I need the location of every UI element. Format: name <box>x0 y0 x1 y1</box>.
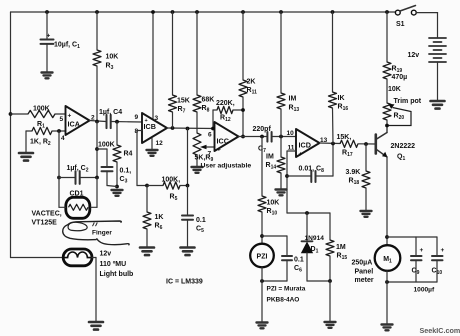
wire R12 ends <box>213 109 243 111</box>
node top rail / R16 <box>331 10 335 14</box>
wire C4 to ICB pin 9 <box>111 121 142 124</box>
svg-text:100K: 100K <box>33 106 50 113</box>
wire R14 top <box>280 137 282 158</box>
node top rail / R8 <box>195 10 199 14</box>
wire R14 bottom <box>280 173 282 189</box>
resistor R11 label <box>247 79 258 96</box>
wire R18 top <box>365 144 367 171</box>
transistor Q1 2N2222 <box>376 133 388 158</box>
photocell CD1 name label <box>32 211 62 227</box>
op-amp ICB <box>135 113 168 147</box>
svg-text:0.1: 0.1 <box>196 217 206 224</box>
svg-text:IK: IK <box>338 95 345 102</box>
diode D1 1N914 <box>302 241 313 253</box>
resistor R8 68K <box>193 95 201 112</box>
wire R16 bottom <box>332 108 335 144</box>
svg-text:PKB8-4AO: PKB8-4AO <box>267 297 300 304</box>
wire caps top rail <box>387 236 437 238</box>
wire R18 bottom <box>365 188 367 211</box>
node R4 / C3 ground join <box>115 185 119 189</box>
ground R4 C3 <box>112 190 123 196</box>
svg-text:ICB: ICB <box>144 122 156 131</box>
wire R3 top lead <box>96 12 98 50</box>
svg-text:VT125E: VT125E <box>32 220 58 227</box>
node D1 top <box>305 211 309 215</box>
diode D1 labels <box>305 235 325 255</box>
svg-text:10: 10 <box>287 130 295 137</box>
svg-text:Finger: Finger <box>92 230 112 237</box>
wire PZ1 to ground <box>261 267 263 321</box>
piezo PZ1 name label <box>267 286 306 304</box>
node R5 right / C5 <box>186 184 190 188</box>
ground ICB pin 12 <box>147 150 158 156</box>
wire C9 bottom lead <box>415 260 417 282</box>
node R5 left / R6 <box>145 184 149 188</box>
node R15 / D1 bottom <box>328 279 332 283</box>
label IC = LM339 <box>166 279 203 286</box>
svg-text:12v: 12v <box>408 52 420 59</box>
capacitor C6 label <box>294 257 304 274</box>
svg-text:3.9K: 3.9K <box>346 169 361 176</box>
capacitor C10 label <box>432 268 443 277</box>
wire R10 top <box>261 137 263 197</box>
op-amp ICC <box>208 122 239 158</box>
wire meter to ground <box>386 271 388 324</box>
svg-text:1M: 1M <box>336 244 346 251</box>
node C3 tap <box>95 147 99 151</box>
resistor R10 label <box>267 200 280 217</box>
wire Q1 emitter to meter <box>386 157 388 245</box>
ground R6 <box>140 248 154 256</box>
capacitor C4 <box>107 115 111 128</box>
label watermark <box>420 326 460 335</box>
wire R10 to PZ1 <box>261 212 263 244</box>
wire bulb right lead <box>92 258 96 322</box>
wire R19 top <box>386 12 388 62</box>
wire R7 top <box>172 12 174 95</box>
resistor R10 10K <box>258 196 266 212</box>
svg-text:10K: 10K <box>106 54 119 61</box>
wire ICA output <box>90 121 107 122</box>
wire ICB pin 3 VCC <box>152 12 154 119</box>
wire R8 to pot R9 <box>196 112 198 133</box>
node base / R18 <box>364 142 368 146</box>
wire pin11 node to D1 R15 <box>287 212 330 214</box>
svg-text:100K: 100K <box>98 142 115 149</box>
svg-text:Panel: Panel <box>355 269 374 276</box>
capacitor C8 wire left <box>287 175 311 177</box>
wire R2 to ICA pin 4 <box>52 130 66 132</box>
wire C2 left lead <box>59 131 76 178</box>
node ICC pin6 / R12 <box>211 127 215 131</box>
resistor R15 1M <box>326 240 334 256</box>
wire C7 to ICD pin 10 <box>272 136 296 138</box>
meter M1 label <box>352 260 374 285</box>
svg-text:0.1,: 0.1, <box>120 168 132 175</box>
svg-text:Trim pot: Trim pot <box>394 98 422 105</box>
wire Q1 collector <box>386 126 388 133</box>
ground R14 <box>276 190 287 196</box>
wire C3 bottom lead <box>107 171 117 187</box>
wire R1 to ICA pin 5 <box>55 113 66 115</box>
light bulb labels <box>100 251 134 279</box>
battery 12V <box>429 38 446 62</box>
wire branch down to R5 node <box>187 129 189 186</box>
node top rail / R7 <box>171 10 175 14</box>
node PZ1 bottom / C6 <box>260 279 264 283</box>
resistor R3 10K <box>93 50 101 66</box>
wire R4 bottom lead <box>116 162 118 187</box>
svg-text:PZI = Murata: PZI = Murata <box>267 286 306 293</box>
wire C1 top lead <box>46 12 48 39</box>
light bulb outline <box>63 249 92 266</box>
wire ICD output <box>320 142 341 145</box>
node top rail / R13 <box>279 10 283 14</box>
ground battery <box>431 101 445 109</box>
node top rail / C1 <box>45 10 49 14</box>
wire S1 to battery <box>416 13 437 38</box>
node top rail / R19 <box>385 10 389 14</box>
capacitor C5 <box>182 216 193 220</box>
wire R5 right <box>180 185 188 187</box>
wire C10 bottom lead <box>436 260 438 282</box>
ground R9 <box>192 167 203 173</box>
node pin4 / C2 <box>57 176 61 180</box>
trim pot R20 label top <box>388 86 422 105</box>
node trim pot / collector <box>385 124 389 128</box>
resistor R17 15K <box>340 140 358 147</box>
photocell CD1 label <box>70 191 84 198</box>
wire R13 top <box>280 12 282 93</box>
capacitor C8 wire right <box>316 144 334 177</box>
node top rail / R3 <box>95 10 99 14</box>
resistor R15 label <box>336 244 347 261</box>
resistor R12 label <box>216 100 235 123</box>
node meter / caps top <box>385 235 389 239</box>
finger label <box>92 230 112 237</box>
photocell CD1 zigzag <box>69 204 89 210</box>
svg-text:IM: IM <box>289 96 297 103</box>
svg-text:S1: S1 <box>396 21 405 28</box>
switch S1 label <box>396 21 405 28</box>
resistor R17 label <box>337 134 353 158</box>
svg-text:3: 3 <box>155 115 159 122</box>
ground R18 <box>361 211 372 217</box>
wire R9 bottom <box>196 155 198 167</box>
node R13 R14 pin10 <box>279 135 283 139</box>
wire R16 top <box>332 12 334 92</box>
capacitor C2 <box>76 171 80 184</box>
ground C1 <box>42 73 53 79</box>
wire ICB output to ICC pin 6 <box>167 127 215 130</box>
wire R12 left leg <box>212 110 214 129</box>
resistor R11 2K <box>239 80 247 97</box>
capacitor C9 <box>411 247 424 260</box>
capacitor C1 value label <box>54 42 80 51</box>
transistor Q1 label <box>391 143 416 162</box>
svg-text:+: + <box>299 151 303 158</box>
resistor R8 label <box>202 97 215 114</box>
svg-text:2K: 2K <box>247 79 256 86</box>
svg-text:R4: R4 <box>124 151 133 158</box>
svg-text:12v: 12v <box>100 251 112 258</box>
capacitor C4 label <box>99 109 122 116</box>
node C2 / CD1 <box>95 176 99 180</box>
resistor R5 100K <box>163 182 180 189</box>
svg-text:0.1: 0.1 <box>294 257 304 264</box>
switch S1 <box>395 6 416 16</box>
svg-text:4: 4 <box>61 135 65 142</box>
photocell CD1 wires <box>59 178 97 208</box>
wire R17 to Q1 base <box>358 143 376 145</box>
resistor R12 220K <box>217 106 233 113</box>
wire to R1 <box>11 113 29 115</box>
svg-text:+: + <box>47 32 51 39</box>
wire D1 top lead <box>306 213 308 241</box>
resistor R4 label <box>98 142 133 158</box>
resistor R1 100K <box>28 110 55 117</box>
svg-text:68K: 68K <box>202 97 215 104</box>
wire battery to ground <box>437 62 439 101</box>
wire R11 bottom <box>242 97 244 137</box>
capacitor C9 C10 value <box>414 287 435 294</box>
svg-text:9: 9 <box>135 114 139 121</box>
capacitor C8 label <box>299 166 325 175</box>
svg-text:6: 6 <box>208 132 212 139</box>
capacitor C3 label <box>120 168 132 185</box>
svg-text:220K,: 220K, <box>216 100 235 107</box>
wire R7 bottom <box>172 112 174 128</box>
svg-text:CD1: CD1 <box>70 191 84 198</box>
wire D1 bottom lead <box>307 253 330 281</box>
resistor R6 label <box>155 214 164 231</box>
wire C6 top lead <box>262 236 287 256</box>
node R11 / R12 <box>241 108 245 112</box>
ground C5 <box>181 248 195 256</box>
wire C3 top lead <box>97 149 107 167</box>
node top rail / ICB pin3 <box>151 10 155 14</box>
wire R4 top lead <box>116 122 118 145</box>
svg-text:ICC: ICC <box>217 137 229 146</box>
svg-text:ICA: ICA <box>68 120 80 129</box>
wire C6 bottom lead <box>262 260 287 281</box>
svg-text:5: 5 <box>60 116 64 123</box>
wire C5 bottom <box>187 220 189 247</box>
ground PZ1 <box>257 323 268 329</box>
wire ICC output to C7 <box>239 136 268 138</box>
wire trim pot bottom <box>386 120 388 133</box>
svg-text:100K,: 100K, <box>162 177 181 184</box>
svg-text:7: 7 <box>208 151 212 158</box>
resistor R16 1K <box>329 92 337 108</box>
svg-text:+: + <box>217 147 221 154</box>
piezo PZ1 <box>250 244 274 268</box>
capacitor C3 <box>102 167 113 171</box>
wire R2 left lead <box>26 131 32 153</box>
capacitor C9 label <box>412 268 420 277</box>
wire to ground D1 R15 <box>329 281 331 322</box>
ground D1 R15 <box>325 322 336 328</box>
capacitor C8 <box>311 171 315 182</box>
photocell CD1 outline <box>66 197 90 218</box>
trim pot R20 wiper <box>387 104 411 126</box>
svg-text:User adjustable: User adjustable <box>201 163 252 170</box>
wire R6 bottom <box>146 229 148 247</box>
wire ICB pin 12 gnd lead <box>151 139 153 150</box>
node C4 / R4 / pin9 <box>115 120 119 124</box>
potentiometer R9 5K <box>193 133 201 155</box>
op-amp ICA <box>60 106 96 142</box>
svg-text:12: 12 <box>156 140 164 147</box>
resistor R7 15K <box>169 95 177 112</box>
node R10 tap <box>260 135 264 139</box>
svg-text:VACTEC,: VACTEC, <box>32 211 62 218</box>
node ICA output / R3 <box>95 120 99 124</box>
svg-text:1µf, C4: 1µf, C4 <box>99 109 122 116</box>
meter M1 <box>375 245 401 271</box>
svg-text:IC = LM339: IC = LM339 <box>166 279 203 286</box>
light bulb filament <box>64 252 91 258</box>
resistor R5 label <box>162 177 181 203</box>
finger drawing <box>63 221 129 245</box>
resistor R13 1M <box>277 93 285 109</box>
svg-text:1000µf: 1000µf <box>414 287 435 294</box>
battery label <box>408 52 420 59</box>
svg-text:meter: meter <box>355 277 374 284</box>
ground meter <box>382 325 393 331</box>
resistor R3 label <box>106 54 119 72</box>
wire C9 top lead <box>415 237 417 256</box>
svg-text:+: + <box>420 247 424 254</box>
svg-text:10K: 10K <box>267 200 280 207</box>
node meter bottom <box>385 280 389 284</box>
svg-text:110 ºMU: 110 ºMU <box>100 261 127 268</box>
wire R19 to trim pot <box>386 79 388 103</box>
resistor R19 label <box>392 66 408 82</box>
svg-text:250µA: 250µA <box>352 260 373 267</box>
node ICA pin 4 <box>57 129 61 133</box>
potentiometer R9 wiper arrow <box>200 145 215 150</box>
wire ICA output node down <box>96 122 98 178</box>
resistor R19 470 <box>383 62 391 79</box>
resistor R2 label <box>30 139 51 148</box>
resistor R14 label <box>266 154 277 171</box>
resistor R15 top wire <box>329 213 331 240</box>
resistor R16 label <box>338 95 349 112</box>
svg-text:PZI: PZI <box>257 254 268 261</box>
wire +12V top rail <box>11 11 396 13</box>
resistor R18 label <box>346 169 361 186</box>
wire R3 to ICA output node <box>96 66 98 122</box>
capacitor C6 <box>282 256 292 260</box>
wire C5 top <box>187 186 189 216</box>
wire C2 right lead <box>80 177 97 179</box>
wire caps bottom rail <box>387 281 437 283</box>
wire R15 bottom <box>329 256 331 281</box>
capacitor C10 <box>432 247 445 260</box>
resistor R2 1K <box>32 127 52 134</box>
potentiometer R9 label <box>195 155 252 170</box>
svg-text:IM: IM <box>266 154 274 161</box>
node ICB output / R7 <box>171 126 175 130</box>
node PZ1 top / C6 <box>260 234 264 238</box>
trim pot R20 <box>383 103 391 120</box>
svg-text:15K: 15K <box>177 98 190 105</box>
capacitor C7 labels <box>253 126 272 154</box>
ground R2 <box>19 153 33 161</box>
svg-text:470µ: 470µ <box>392 74 408 81</box>
capacitor C7 220pf <box>267 132 271 142</box>
resistor R1 label <box>33 106 50 130</box>
wire R6 top <box>146 186 148 213</box>
capacitor C1 <box>41 32 54 44</box>
wire left rail down to lamp <box>11 12 64 258</box>
resistor R18 3.9K <box>362 171 370 188</box>
wire C1 bottom lead <box>46 44 48 72</box>
capacitor C2 label <box>67 165 89 174</box>
svg-text:Light bulb: Light bulb <box>100 271 134 278</box>
ground light bulb <box>89 322 103 330</box>
node ICB output branch down <box>186 127 190 131</box>
svg-text:+: + <box>441 247 445 254</box>
node top rail / R11 <box>241 10 245 14</box>
capacitor C5 label <box>196 217 206 234</box>
wire C10 top lead <box>436 237 438 256</box>
svg-text:+: + <box>68 113 72 120</box>
svg-text:2N2222: 2N2222 <box>391 143 416 150</box>
wire ICD pin 11 <box>287 151 296 213</box>
node left rail / R1 <box>9 112 13 116</box>
wire R13 bottom <box>280 109 282 137</box>
wire R5 left <box>147 185 163 187</box>
resistor R4 100K <box>113 145 121 162</box>
svg-text:SeekIC.com: SeekIC.com <box>420 326 460 335</box>
svg-text:10K: 10K <box>388 86 401 93</box>
svg-text:1N914: 1N914 <box>305 235 325 242</box>
svg-text:1K: 1K <box>155 214 164 221</box>
resistor R7 label <box>177 98 190 115</box>
svg-text:220pf: 220pf <box>253 126 272 133</box>
wire R11 top <box>242 12 244 80</box>
node ICC output <box>241 135 245 139</box>
svg-text:ICD: ICD <box>299 141 311 150</box>
wire ICB pin 8 <box>137 131 147 186</box>
node pin11 / C8 <box>285 174 289 178</box>
svg-text:15K,: 15K, <box>337 134 352 141</box>
wire R8 top <box>196 12 198 95</box>
resistor R13 label <box>289 96 300 114</box>
resistor R6 1K <box>143 212 151 229</box>
resistor R14 1M <box>277 157 285 173</box>
node ICD output / R16 / C8 <box>331 142 335 146</box>
op-amp ICD <box>287 129 328 158</box>
